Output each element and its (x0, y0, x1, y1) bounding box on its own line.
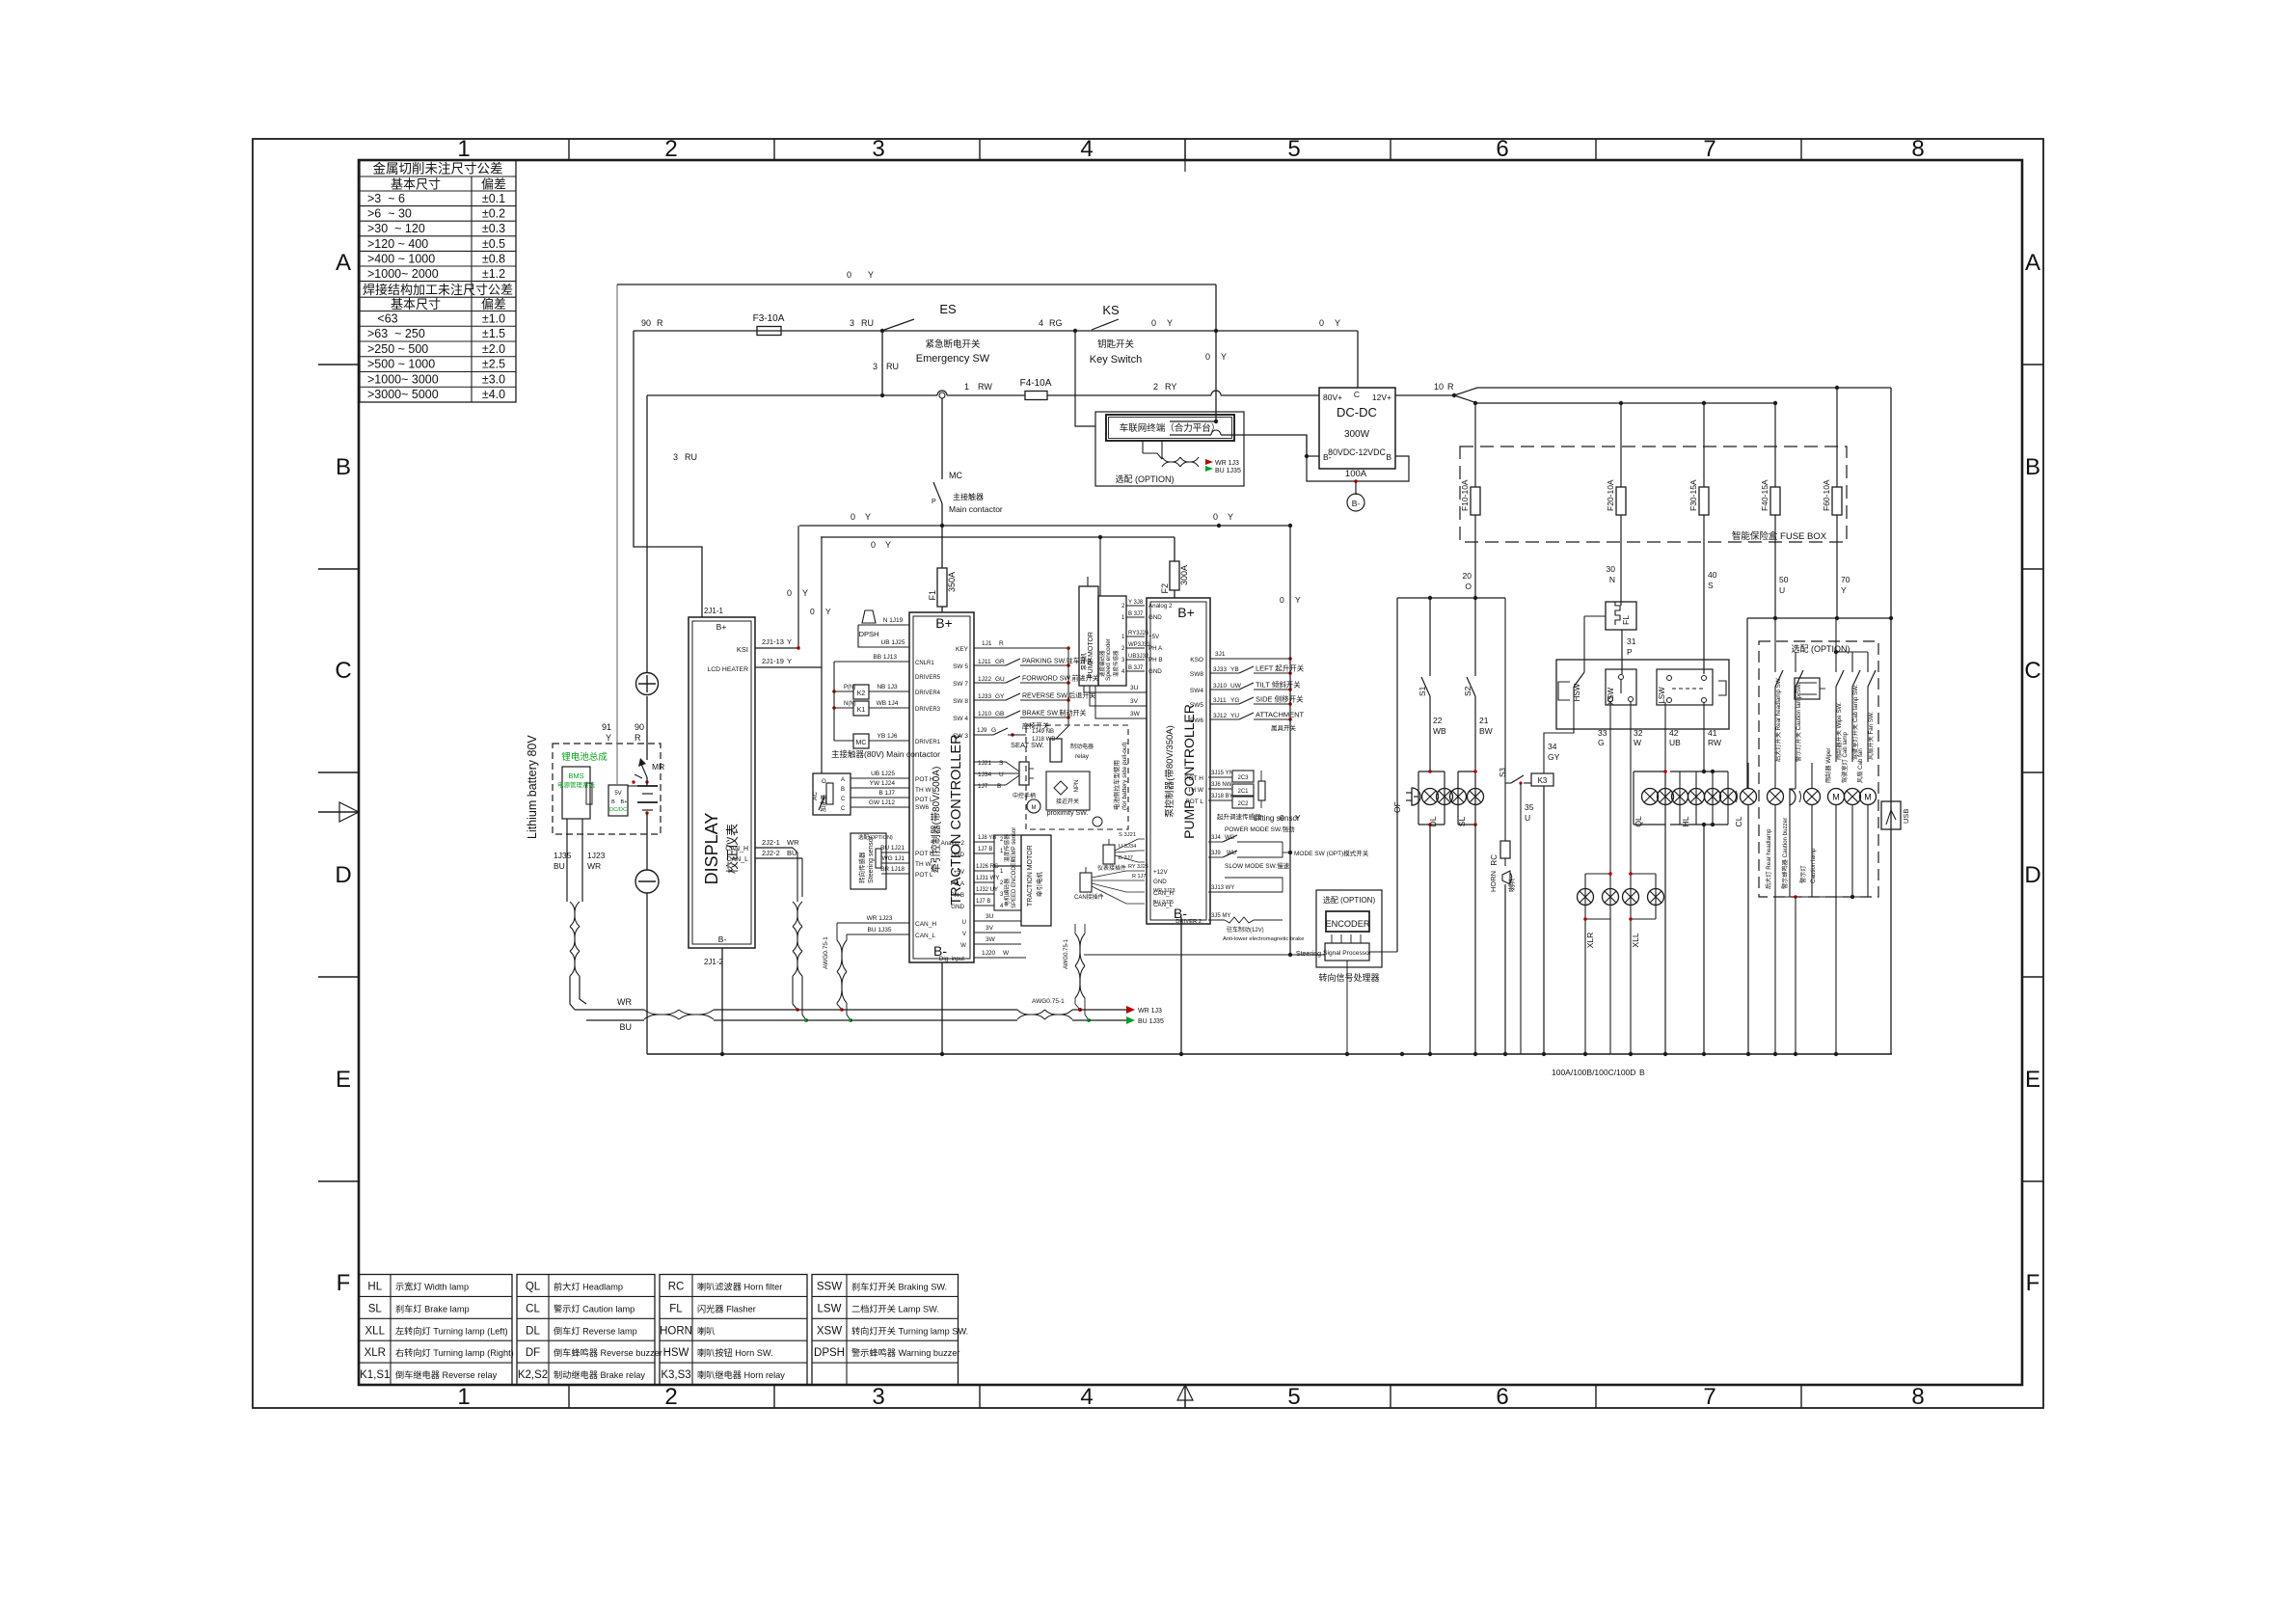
wire upper distribution 0 line (1477, 386, 1893, 1054)
wire 91 Y from rail to battery BMS (602, 284, 617, 785)
rear headlamp switch (1774, 618, 1783, 789)
svg-text:BU 1J35: BU 1J35 (868, 927, 892, 934)
svg-text:SW6: SW6 (1190, 717, 1203, 724)
wire 90 R battery positive riser (635, 395, 647, 870)
fuse F20-10A (1606, 403, 1626, 515)
svg-text:Steering sensor: Steering sensor (868, 835, 875, 883)
svg-text:DRIVER 2: DRIVER 2 (1175, 919, 1202, 925)
svg-text:驾驶室灯开关 Cab lamp SW.: 驾驶室灯开关 Cab lamp SW. (1851, 684, 1859, 760)
svg-text:偏差: 偏差 (481, 297, 506, 311)
svg-text:5: 5 (1287, 1384, 1300, 1410)
svg-text:温度传感器: 温度传感器 (1003, 834, 1011, 862)
svg-text:±4.0: ±4.0 (482, 388, 505, 401)
grid column numbers bottom (457, 1384, 1924, 1410)
svg-text:HSW: HSW (663, 1347, 689, 1359)
svg-text:SL: SL (368, 1303, 383, 1314)
svg-text:二档灯开关 Lamp SW.: 二档灯开关 Lamp SW. (851, 1303, 939, 1313)
svg-text:BU 1J35: BU 1J35 (1215, 468, 1241, 474)
lamp group SL brake lamps (1450, 770, 1484, 826)
svg-text:Y: Y (865, 512, 871, 522)
svg-text:±1.2: ±1.2 (482, 267, 505, 281)
svg-text:倒车灯 Reverse lamp: 倒车灯 Reverse lamp (554, 1325, 637, 1336)
svg-text:雨刮器 Wiper: 雨刮器 Wiper (1824, 748, 1832, 783)
wire display B- drop 2J1-2 (721, 948, 723, 1054)
horn HORN (1489, 871, 1516, 1054)
svg-text:风扇 Cab fan: 风扇 Cab fan (1856, 748, 1864, 783)
centering mark left arrow (318, 802, 359, 822)
svg-text:B: B (336, 454, 351, 480)
svg-text:Anti-lower electromagnetic bra: Anti-lower electromagnetic brake (1223, 936, 1304, 942)
wiper motor (1824, 748, 1845, 897)
pump CAN connector plugs (1074, 832, 1148, 904)
svg-text:KS: KS (1102, 303, 1120, 317)
svg-text:±3.0: ±3.0 (482, 372, 505, 386)
grid column numbers top (457, 136, 1924, 162)
svg-text:F2: F2 (1160, 583, 1170, 594)
wire key switch to telematics (1075, 331, 1095, 426)
pump motor UVW wires (1084, 685, 1147, 718)
svg-text:1J7 B: 1J7 B (978, 847, 992, 853)
traction motor UVW wires (960, 913, 1021, 949)
temp sensor box traction (941, 827, 1021, 866)
svg-text:泵控制器(带80V/350A): 泵控制器(带80V/350A) (1164, 725, 1175, 818)
pump KSO pin wire 3J1 (1190, 651, 1292, 663)
svg-text:OF: OF (1392, 801, 1402, 813)
svg-text:DRIVER5: DRIVER5 (915, 675, 941, 681)
svg-text:3: 3 (850, 318, 854, 328)
svg-text:BU 3J35: BU 3J35 (1153, 900, 1174, 906)
svg-text:3V: 3V (986, 925, 994, 932)
svg-text:100A/100B/100C/100D: 100A/100B/100C/100D (1552, 1068, 1635, 1077)
svg-text:Steering: Steering (1296, 951, 1321, 958)
svg-text:SL: SL (1457, 817, 1467, 827)
svg-text:2J2-2: 2J2-2 (762, 849, 780, 857)
svg-text:1J34: 1J34 (978, 771, 991, 778)
lamp rear headlamp (1765, 789, 1784, 1055)
svg-text:P(N): P(N) (844, 685, 855, 690)
svg-text:PH B: PH B (951, 892, 964, 899)
svg-text:U: U (999, 771, 1004, 778)
svg-text:P: P (932, 499, 936, 505)
svg-text:0: 0 (847, 270, 851, 280)
svg-text:M: M (1032, 805, 1037, 811)
svg-text:D: D (2024, 862, 2040, 888)
pump motor box (1079, 577, 1098, 686)
svg-text:钥匙开关: 钥匙开关 (1097, 338, 1135, 350)
svg-text:Y: Y (868, 270, 874, 280)
svg-text:UB 1J25: UB 1J25 (881, 639, 905, 646)
svg-text:42: 42 (1669, 728, 1679, 738)
svg-text:A: A (2025, 250, 2040, 276)
svg-text:F3-10A: F3-10A (753, 313, 785, 324)
lamp CL caution (1734, 763, 1757, 1054)
svg-text:Y: Y (825, 607, 831, 616)
svg-text:1J21: 1J21 (978, 760, 991, 767)
svg-text:Lifting sensor: Lifting sensor (1254, 814, 1300, 823)
svg-text:U: U (962, 919, 966, 926)
svg-text:B-: B- (1352, 499, 1361, 508)
svg-text:POT H: POT H (1184, 775, 1203, 782)
svg-text:K2,S2: K2,S2 (518, 1369, 548, 1381)
svg-text:+5V: +5V (954, 869, 965, 876)
horn filter RC (1490, 598, 1510, 866)
svg-text:±0.2: ±0.2 (482, 207, 505, 221)
svg-text:300A: 300A (1179, 565, 1189, 585)
svg-text:TH W: TH W (915, 861, 932, 868)
svg-text:SW5: SW5 (1190, 702, 1203, 709)
svg-text:WR: WR (787, 838, 799, 847)
svg-text:WR: WR (617, 997, 632, 1007)
svg-text:F10-10A: F10-10A (1460, 479, 1470, 511)
svg-text:USB: USB (1902, 809, 1910, 824)
svg-text:Main contactor: Main contactor (949, 504, 1003, 514)
svg-text:3V: 3V (1130, 698, 1139, 705)
cab option dashed enclosure (1759, 641, 1878, 897)
svg-text:70: 70 (1841, 575, 1850, 584)
svg-text:BU 1J35: BU 1J35 (1138, 1018, 1164, 1025)
svg-text:2J2-1: 2J2-1 (762, 838, 780, 847)
fuse F1 350A (928, 568, 957, 612)
wire 0 Y encoder riser (1396, 598, 1398, 952)
traction switch pins SW5 SW7 SW8 SW4 (953, 648, 1099, 726)
accelerator pedal box AC (812, 773, 851, 815)
svg-text:RY: RY (1165, 382, 1176, 392)
svg-text:焊接结构加工未注尺寸公差: 焊接结构加工未注尺寸公差 (363, 283, 513, 297)
lamp switch LSW box (1657, 669, 1726, 705)
battery auxiliary DC/DC module (608, 785, 628, 816)
wire OF branch stub (1414, 796, 1418, 798)
svg-text:ATTACHMENT: ATTACHMENT (1256, 711, 1305, 719)
svg-text:±0.8: ±0.8 (482, 252, 505, 265)
wire 3 RU vertical ES to RW rail (873, 331, 899, 397)
svg-text:Y: Y (1335, 318, 1340, 328)
svg-text:GND: GND (1153, 879, 1167, 885)
wire option feeder rail (1747, 618, 1891, 789)
svg-text:RU: RU (685, 452, 697, 462)
svg-text:3J6 NW: 3J6 NW (1211, 782, 1232, 788)
svg-text:2: 2 (664, 1384, 677, 1410)
svg-text:0: 0 (1151, 318, 1156, 328)
svg-text:4: 4 (1039, 318, 1043, 328)
svg-text:LCD HEATER: LCD HEATER (707, 666, 748, 673)
svg-text:SW4: SW4 (1190, 688, 1203, 694)
svg-text:3J9: 3J9 (1211, 851, 1221, 856)
svg-text:0: 0 (1213, 512, 1218, 522)
svg-text:B: B (997, 783, 1001, 790)
svg-text:基本尺寸: 基本尺寸 (391, 177, 441, 192)
lamp group HL width lamps (1670, 770, 1737, 1054)
svg-text:B 3J7: B 3J7 (1119, 855, 1133, 861)
svg-text:GND: GND (951, 852, 964, 858)
wire 0 Y pump return vertical (1280, 524, 1301, 957)
svg-text:RW: RW (1708, 738, 1721, 747)
svg-text:PUMP CONTROLLER: PUMP CONTROLLER (1181, 704, 1197, 839)
svg-text:SW8: SW8 (1190, 671, 1203, 678)
svg-text:0: 0 (1205, 352, 1210, 362)
svg-text:Dig. input: Dig. input (939, 956, 964, 962)
svg-text:DC/DC: DC/DC (609, 807, 627, 813)
svg-text:3: 3 (673, 452, 678, 462)
svg-text:Speed encoder: Speed encoder (1105, 637, 1112, 681)
emergency switch ES (880, 302, 1077, 365)
svg-text:>6 ~ 30: >6 ~ 30 (367, 207, 412, 221)
svg-text:3: 3 (872, 1384, 884, 1410)
svg-text:3U: 3U (986, 913, 994, 920)
lamp cab interior (1841, 731, 1861, 897)
fuse F30-15A (1688, 403, 1709, 515)
svg-text:A: A (336, 250, 351, 276)
svg-text:YB: YB (1230, 666, 1239, 673)
svg-text:CAN接插件: CAN接插件 (1074, 893, 1104, 901)
svg-text:RY 3J25: RY 3J25 (1128, 864, 1148, 870)
svg-text:5: 5 (1287, 136, 1300, 162)
svg-text:12V+: 12V+ (1372, 392, 1391, 402)
svg-text:R: R (1447, 382, 1454, 392)
svg-text:32: 32 (1634, 728, 1643, 738)
svg-text:2J1-13: 2J1-13 (762, 637, 784, 646)
svg-text:WR: WR (587, 861, 601, 871)
svg-text:91: 91 (602, 722, 611, 732)
svg-text:S1: S1 (1418, 686, 1427, 696)
svg-text:S2: S2 (1463, 686, 1472, 696)
svg-text:±0.1: ±0.1 (482, 192, 505, 205)
svg-text:Analog 2: Analog 2 (941, 840, 965, 847)
lithium battery assembly dashed enclosure (526, 735, 661, 839)
svg-text:SIDE 侧移开关: SIDE 侧移开关 (1256, 694, 1304, 704)
svg-text:GU: GU (995, 676, 1005, 683)
svg-text:Y: Y (606, 733, 611, 743)
svg-text:3J5 MY: 3J5 MY (1211, 913, 1230, 919)
svg-text:>120 ~ 400: >120 ~ 400 (367, 237, 428, 251)
wire 34 GY horn switch to relay (1544, 687, 1574, 773)
svg-text:3W: 3W (1130, 711, 1141, 717)
svg-text:R 1J7: R 1J7 (1132, 874, 1146, 880)
svg-text:W: W (960, 942, 966, 949)
wire top rail 0 Y (617, 270, 1216, 284)
svg-text:>3 ~ 6: >3 ~ 6 (367, 192, 405, 205)
wire signal processor drop to bus (1346, 961, 1348, 1054)
svg-text:HL: HL (1681, 816, 1690, 826)
caution lamp switch (1795, 652, 1803, 789)
svg-text:金属切削未注尺寸公差: 金属切削未注尺寸公差 (373, 162, 503, 176)
svg-text:MR: MR (652, 762, 664, 771)
traction driver pins (834, 654, 941, 745)
svg-text:电源管理系统: 电源管理系统 (557, 780, 596, 789)
svg-text:MC: MC (856, 740, 867, 746)
svg-text:F30-15A: F30-15A (1688, 479, 1698, 511)
svg-text:Emergency SW: Emergency SW (916, 353, 990, 365)
svg-text:GW 1J12: GW 1J12 (869, 799, 895, 806)
wire 33 G turn output left (1598, 702, 1610, 874)
svg-text:警示灯 Caution lamp: 警示灯 Caution lamp (554, 1303, 635, 1313)
svg-text:<63: <63 (367, 311, 398, 325)
svg-text:N 1J19: N 1J19 (883, 617, 904, 624)
svg-text:N: N (1609, 575, 1615, 584)
svg-text:relay: relay (1075, 753, 1090, 760)
svg-text:W: W (1003, 950, 1010, 957)
svg-text:警示灯: 警示灯 (1799, 865, 1807, 883)
wire ES rail corner down to DC-DC C pin (1357, 331, 1359, 388)
fuse F4-10A (1020, 378, 1052, 400)
svg-text:WR 1J23: WR 1J23 (867, 915, 893, 922)
lamp group XLL turning left (1623, 872, 1664, 1054)
svg-text:Y: Y (1167, 318, 1173, 328)
svg-text:ENCODER: ENCODER (1326, 919, 1370, 929)
svg-text:>250 ~ 500: >250 ~ 500 (367, 342, 428, 356)
svg-text:倒车蜂鸣器 Reverse buzzer: 倒车蜂鸣器 Reverse buzzer (554, 1347, 662, 1358)
svg-text:泵电机: 泵电机 (1080, 653, 1088, 670)
svg-text:80V+: 80V+ (1323, 392, 1342, 402)
svg-text:1J31 WY: 1J31 WY (976, 876, 999, 881)
svg-text:100A: 100A (1345, 469, 1367, 479)
svg-text:牵引电机: 牵引电机 (1035, 872, 1043, 898)
wire display LCD heater 2J1-19 Y (755, 537, 831, 773)
svg-text:YU: YU (1230, 713, 1239, 719)
svg-text:B 3J7: B 3J7 (1128, 665, 1144, 671)
svg-text:选配 (OPTION): 选配 (OPTION) (1116, 474, 1175, 484)
wire display CAN pair to bus (755, 838, 806, 1020)
svg-text:K3: K3 (1538, 776, 1548, 785)
svg-text:RU: RU (861, 318, 874, 328)
svg-text:4: 4 (1080, 136, 1093, 162)
svg-text:HORN: HORN (660, 1325, 692, 1337)
svg-text:BW: BW (1479, 726, 1493, 736)
svg-text:41: 41 (1708, 728, 1717, 738)
svg-text:闪光器 Flasher: 闪光器 Flasher (697, 1303, 756, 1313)
svg-text:6: 6 (1496, 1384, 1508, 1410)
svg-text:>63 ~ 250: >63 ~ 250 (367, 327, 425, 340)
svg-text:B-: B- (1323, 452, 1332, 462)
svg-text:C: C (841, 797, 846, 802)
svg-text:3J4: 3J4 (1211, 835, 1221, 841)
speed encoder box traction (951, 857, 1021, 910)
svg-text:WG 1J1: WG 1J1 (882, 855, 905, 862)
svg-text:Y: Y (802, 588, 808, 598)
switch S2 and wire 21 BW (1463, 598, 1493, 771)
CAN bus twisted pair horizontal (575, 997, 1164, 1032)
svg-text:1J7 B: 1J7 B (976, 899, 990, 905)
svg-text:车联网终端（合力平台）: 车联网终端（合力平台） (1120, 422, 1221, 434)
svg-text:驾驶室灯 Cab lamp: 驾驶室灯 Cab lamp (1841, 731, 1849, 783)
svg-text:C: C (1354, 390, 1360, 399)
svg-text:右转向灯 Turning lamp (Right): 右转向灯 Turning lamp (Right) (395, 1347, 514, 1358)
svg-text:DRIVER4: DRIVER4 (915, 690, 941, 696)
svg-text:S 3J21: S 3J21 (1119, 832, 1136, 838)
svg-text:P: P (1627, 647, 1633, 657)
svg-text:后大灯 Rear headlamp: 后大灯 Rear headlamp (1765, 828, 1772, 889)
svg-text:Y: Y (787, 637, 792, 646)
svg-text:WB: WB (1433, 726, 1446, 736)
svg-text:1J18 WB: 1J18 WB (1032, 737, 1055, 743)
svg-text:TEMP sensor: TEMP sensor (1012, 827, 1017, 862)
svg-text:B 3J7: B 3J7 (1128, 611, 1144, 617)
seat relay dashed enclosure (1026, 725, 1128, 829)
svg-text:DRIVER3: DRIVER3 (915, 707, 941, 713)
svg-text:C: C (2024, 658, 2040, 684)
svg-text:SW 8: SW 8 (953, 698, 968, 705)
svg-text:SW 3: SW 3 (953, 733, 968, 740)
svg-text:TRACTION MOTOR: TRACTION MOTOR (1027, 845, 1034, 907)
svg-text:WR 3J23: WR 3J23 (1153, 888, 1175, 894)
svg-text:KEY: KEY (956, 646, 969, 653)
DC-DC converter 300W (1319, 388, 1395, 469)
svg-text:2J1-1: 2J1-1 (704, 607, 724, 615)
terminal B- circle (1347, 481, 1364, 511)
pump anti-roll brake output (1175, 913, 1304, 942)
svg-text:O: O (1465, 582, 1472, 591)
cab lamp switch (1851, 652, 1860, 762)
svg-text:40: 40 (1708, 570, 1717, 580)
svg-text:D: D (335, 862, 351, 888)
svg-text:Caution lamp: Caution lamp (1810, 848, 1817, 883)
svg-text:RG: RG (1049, 318, 1063, 328)
lamp and turn switch assembly box (1556, 660, 1729, 729)
svg-text:RU: RU (886, 362, 899, 371)
svg-text:33: 33 (1598, 728, 1607, 738)
svg-text:3: 3 (873, 362, 878, 371)
svg-text:U: U (1525, 813, 1530, 823)
svg-text:300W: 300W (1344, 429, 1370, 440)
encoder box (1326, 911, 1370, 932)
svg-text:GB: GB (995, 711, 1004, 717)
wire 32 W turn output right (1631, 702, 1643, 874)
battery negative terminal circle (635, 870, 659, 893)
svg-text:F4-10A: F4-10A (1020, 378, 1052, 389)
svg-text:WB 1J4: WB 1J4 (877, 700, 899, 707)
svg-text:Y: Y (1841, 585, 1847, 595)
svg-text:RW: RW (978, 382, 992, 392)
key switch KS (1090, 303, 1142, 365)
wire 42 UB lamp switch output (1665, 702, 1681, 771)
svg-text:LSW: LSW (1658, 687, 1666, 704)
svg-text:PUMP MOTOR: PUMP MOTOR (1088, 632, 1094, 678)
svg-text:proximity SW.: proximity SW. (1047, 810, 1089, 817)
fuse F40-15A (1760, 403, 1780, 515)
svg-text:3J1: 3J1 (1215, 651, 1226, 658)
battery BMS module (557, 751, 608, 819)
svg-text:接近开关: 接近开关 (1056, 798, 1079, 805)
lifting sensor connector (1184, 771, 1300, 823)
svg-text:驻车制动(12V): 驻车制动(12V) (1227, 926, 1264, 934)
svg-text:Y: Y (1221, 352, 1227, 362)
svg-text:速度编码器: 速度编码器 (1098, 650, 1106, 677)
svg-text:1: 1 (457, 136, 470, 162)
svg-text:中控手柄: 中控手柄 (1013, 792, 1036, 799)
traction dig input pin (939, 950, 1026, 962)
wire DC-DC B- loop 100A (1305, 435, 1409, 483)
pump speed encoder sensor box (1098, 596, 1126, 686)
svg-text:风扇开关 Fan SW.: 风扇开关 Fan SW. (1867, 712, 1875, 760)
svg-text:0: 0 (851, 512, 855, 522)
svg-text:3W: 3W (986, 936, 996, 943)
bottom 100A bus wire (647, 1052, 1892, 1077)
cab fan switch (1836, 652, 1876, 762)
telematics terminal option box (1095, 412, 1244, 486)
svg-text:G: G (991, 727, 996, 734)
centering mark bottom triangle (1177, 1385, 1193, 1408)
svg-text:DPSH: DPSH (814, 1347, 845, 1359)
svg-text:(for battery side pull-out): (for battery side pull-out) (1121, 743, 1128, 810)
svg-text:±2.5: ±2.5 (482, 358, 505, 371)
svg-text:ES: ES (939, 302, 957, 316)
disconnect MR with arrow (635, 758, 664, 778)
svg-text:35: 35 (1525, 802, 1534, 812)
svg-text:转向灯开关 Turning lamp SW.: 转向灯开关 Turning lamp SW. (851, 1325, 968, 1336)
svg-text:E: E (2025, 1067, 2040, 1093)
svg-text:LSW: LSW (818, 1303, 842, 1314)
svg-text:BRAKE SW.制动开关: BRAKE SW.制动开关 (1022, 709, 1087, 717)
pump 3J13 WY output (1208, 878, 1283, 892)
